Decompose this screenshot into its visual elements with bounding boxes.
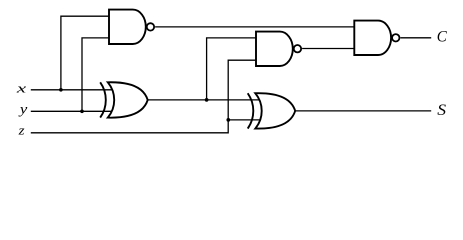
node C1 junction on XOR1 output wire xyxy=(205,98,209,102)
wire y branch to NAND1 input 2 xyxy=(82,38,109,111)
svg-text:C: C xyxy=(437,28,448,45)
nand gate U1 bubble xyxy=(147,23,154,30)
wire XOR1 output branch to NAND2 input 1 xyxy=(207,38,256,100)
node A junction on x wire xyxy=(59,88,63,92)
xor gate X2 body xyxy=(255,93,295,128)
nand gate U2 body xyxy=(256,32,293,66)
wire x input xyxy=(31,89,113,91)
xor gate X1 input arc xyxy=(100,82,106,117)
xor gate X2 input arc xyxy=(248,93,254,128)
xor gate X1 body xyxy=(108,82,148,117)
node D junction on z branch wire xyxy=(226,118,230,122)
svg-text:S: S xyxy=(437,102,446,119)
wire y input xyxy=(31,110,112,112)
wire x branch to NAND1 input 1 xyxy=(61,16,109,90)
nand gate U3 body xyxy=(354,21,391,55)
nand gate U1 body xyxy=(109,10,146,44)
node B junction on y wire xyxy=(80,109,84,113)
nand gate U2 bubble xyxy=(294,45,301,52)
svg-text:x: x xyxy=(15,80,26,95)
svg-text:z: z xyxy=(18,123,25,138)
wire NAND1 output to NAND3 input 1 xyxy=(155,26,354,28)
wire z branch to XOR2 input 2 xyxy=(228,119,260,121)
svg-text:y: y xyxy=(18,102,29,117)
nand gate U3 bubble xyxy=(392,34,399,41)
wire NAND3 output to C xyxy=(400,37,431,39)
wire NAND2 output to NAND3 input 2 xyxy=(302,48,354,50)
wire XOR1 output to XOR2 input 1 xyxy=(148,99,260,101)
wire z to NAND2 input 2 xyxy=(31,60,256,133)
wire XOR2 output to S xyxy=(295,110,431,112)
